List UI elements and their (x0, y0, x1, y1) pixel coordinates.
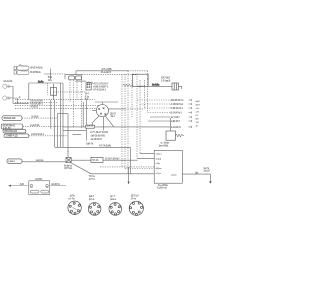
inline module box (91, 157, 103, 162)
relay K1 (68, 76, 74, 80)
fuse detail box (29, 181, 50, 195)
wire module to ground (182, 174, 210, 182)
label box LB1 (2, 116, 22, 121)
svg-text:B-1-0A?a-1: B-1-0A?a-1 (171, 112, 183, 115)
wire fuse left w arrow (9, 185, 29, 187)
wire J1 right (109, 108, 126, 110)
wire top bus 1 (76, 71, 128, 75)
fuse F1 (14, 64, 29, 70)
svg-text:a0a?-: a0a?- (196, 104, 201, 106)
label box LB2 (1, 124, 23, 129)
label right col (196, 101, 201, 128)
fuse slot left (30, 190, 39, 193)
regulator box (132, 74, 148, 86)
svg-text:+a--?a-: +a--?a- (68, 197, 75, 200)
fuse F2 (14, 70, 29, 74)
svg-text:1a-?-0A?: 1a-?-0A? (171, 116, 181, 119)
svg-text:+0?-: +0?- (196, 111, 200, 113)
resistor squiggle (123, 84, 134, 87)
wire long row (63, 126, 170, 128)
wire dashed row A (15, 99, 95, 101)
svg-text:1a?1B: 1a?1B (35, 178, 42, 181)
connector J2 pinbox (86, 83, 91, 91)
svg-text:B-10.B: B-10.B (32, 115, 39, 118)
svg-text:-1a.0a?-a1: -1a.0a?-a1 (157, 186, 168, 189)
svg-text:-1a-10-01A?: -1a-10-01A? (90, 138, 103, 141)
svg-text:1A-M.?a: 1A-M.?a (51, 183, 60, 186)
wire J1 left (92, 110, 96, 112)
svg-text:am)-a): am)-a) (156, 158, 162, 160)
svg-text:B-10?M.1L: B-10?M.1L (30, 71, 41, 74)
wire stub (75, 80, 86, 82)
wire diag to bottom row (71, 163, 155, 174)
svg-text:a.1)-m: a.1)-m (156, 173, 162, 175)
svg-text:1a.1a?: 1a.1a? (203, 170, 210, 173)
wire bundle turn (67, 151, 69, 153)
resistor R1 zigzag (176, 134, 185, 137)
fuse terminal left (30, 184, 33, 187)
svg-text:B-?: B-? (85, 98, 89, 101)
wire top bus 2 (65, 75, 82, 80)
junction plus mark (18, 96, 20, 99)
svg-text:am)-m: am)-m (171, 174, 177, 176)
svg-text:W-LT.4+B.AL: W-LT.4+B.AL (30, 67, 43, 70)
svg-text:REV.SW-0A1: REV.SW-0A1 (4, 130, 18, 133)
svg-text:0?.10-?.0A?a?: 0?.10-?.0A?a? (105, 158, 120, 161)
wire J1 top (95, 102, 118, 105)
svg-text:AA-1a?A: AA-1a?A (3, 80, 12, 83)
wire dashed row C (15, 104, 66, 106)
wire J1 right dashed (125, 108, 145, 110)
svg-text:A-01-0.1AA-1: A-01-0.1AA-1 (31, 133, 45, 136)
resistor R1 box (166, 131, 176, 140)
wire to flasher (148, 85, 172, 87)
svg-text:A-1B-0A?a-1: A-1B-0A?a-1 (171, 103, 185, 106)
module box U1 (154, 150, 182, 183)
inline label box (86, 125, 95, 128)
wire center dashed rows (63, 105, 100, 108)
wire switch row (71, 159, 91, 161)
wire row 130 (63, 129, 86, 131)
ground arrow (209, 181, 212, 183)
svg-text:A)??um: A)??um (64, 167, 72, 170)
wire from LB4 (29, 135, 68, 137)
wire stub row (73, 134, 82, 136)
svg-text:b?-: b?- (196, 115, 199, 117)
svg-text:a+(A-)a: a+(A-)a (36, 159, 44, 162)
svg-text:-A?-0-01AA-1: -A?-0-01AA-1 (93, 89, 107, 92)
label module rows (156, 154, 177, 177)
connector view C4 (129, 201, 143, 215)
svg-text:(-aaa-): (-aaa-) (8, 160, 14, 163)
headlamp L2 (3, 96, 18, 100)
wire dashed bundle verticals (70, 71, 148, 174)
svg-text:A-01A1: A-01A1 (31, 106, 39, 109)
svg-text:A?.?A-B.(A): A?.?A-B.(A) (99, 145, 111, 148)
wire J1 diag left (92, 116, 99, 127)
label box LB5 (7, 159, 22, 163)
label box LB4 (4, 134, 29, 138)
svg-text:1b-c: 1b-c (48, 79, 53, 82)
svg-text:1a-m?0a1: 1a-m?0a1 (159, 144, 170, 147)
label box LB3 (3, 129, 26, 133)
wire switch row cont (103, 153, 154, 160)
svg-text:a.1)a-: a.1)a- (156, 163, 161, 165)
wire dashed to connector (53, 91, 86, 93)
wire vert to resistor (170, 118, 172, 131)
wire verticals center-right (83, 100, 86, 141)
wire fuse right (50, 185, 66, 187)
switch S1 (50, 84, 56, 100)
svg-text:?a?: ?a? (196, 122, 200, 124)
wire right rows dashed (137, 100, 170, 113)
svg-text:1a: 1a (196, 125, 199, 127)
ignition connector J1 (96, 105, 108, 117)
wire dashed row B (15, 101, 57, 103)
svg-text:a0a?-: a0a?- (196, 101, 201, 103)
svg-text:1?=a-: 1?=a- (131, 197, 137, 200)
svg-text:=?a-: =?a- (196, 108, 200, 110)
wire dashed feed (50, 73, 65, 75)
svg-text:1.AMB-A.(1): 1.AMB-A.(1) (5, 135, 17, 138)
wire dashed vertical (80, 75, 82, 129)
svg-text:A??-1: A??-1 (89, 178, 96, 181)
svg-text:BRAKE.SW: BRAKE.SW (4, 117, 17, 120)
wire from LB5 (22, 161, 66, 163)
fuse terminal right (46, 184, 49, 187)
svg-text:a.1)am: a.1)am (156, 154, 162, 156)
connector view C1 (68, 201, 81, 214)
wire lamp bus (13, 86, 29, 103)
wire arrow drop (128, 167, 130, 182)
wire dashed row D (15, 107, 63, 109)
headlamp L1 (3, 84, 13, 88)
wire center verticals (51, 83, 68, 158)
svg-text:1-aB-0A?: 1-aB-0A? (171, 120, 181, 123)
wire from LB1 (22, 117, 57, 119)
wire row end ticks (189, 99, 192, 128)
svg-text:0a-1: 0a-1 (111, 115, 116, 118)
connector view C3 (109, 203, 122, 216)
arrow head (128, 182, 130, 185)
wire dashed drop (47, 83, 49, 95)
coil squiggle (137, 86, 145, 87)
svg-text:1.0-1aa.B: 1.0-1aa.B (161, 79, 171, 82)
svg-text:(a)-.: (a)-. (195, 172, 199, 175)
wire harness top (29, 83, 63, 100)
svg-text:AB-1B.0A?-1: AB-1B.0A?-1 (171, 99, 185, 102)
svg-text:A+A-0-10: A+A-0-10 (30, 124, 40, 127)
wire from LB2 (23, 126, 63, 128)
wire J1 diag right (105, 115, 114, 127)
flasher component (172, 83, 179, 90)
connector X1 bowtie (66, 158, 71, 163)
wire top bus 1 dashed (128, 71, 148, 79)
connector view C2 (88, 203, 101, 216)
svg-text:1.A?B: 1.A?B (87, 125, 94, 128)
svg-text:S?-1A: S?-1A (92, 159, 99, 162)
wire J1 down (102, 117, 104, 131)
arrow head left (8, 185, 11, 187)
svg-text:A.M-: A.M- (20, 183, 25, 186)
wire from flasher (179, 86, 182, 89)
fuse slot right (41, 190, 49, 193)
svg-text:ju?.a-: ju?.a- (88, 198, 95, 201)
svg-text:a)1)am: a)1)am (156, 168, 162, 170)
svg-text:jum-a: jum-a (109, 198, 116, 201)
svg-text:1-a1-0A?a: 1-a1-0A?a (171, 126, 182, 129)
svg-text:0-1B-0A?a-1: 0-1B-0A?a-1 (171, 107, 184, 110)
wire right rows solid (148, 117, 170, 121)
wire from fuses (44, 69, 50, 80)
wire stubs into module (100, 167, 154, 169)
wire long mid (55, 147, 130, 174)
svg-text:1aB-?a: 1aB-?a (86, 143, 94, 146)
wire top bus 2 dashed (82, 74, 137, 76)
svg-text:A1-a.1a?A: A1-a.1a?A (101, 71, 112, 74)
svg-text:50?: 50? (196, 118, 200, 120)
relay K2 (75, 76, 81, 80)
